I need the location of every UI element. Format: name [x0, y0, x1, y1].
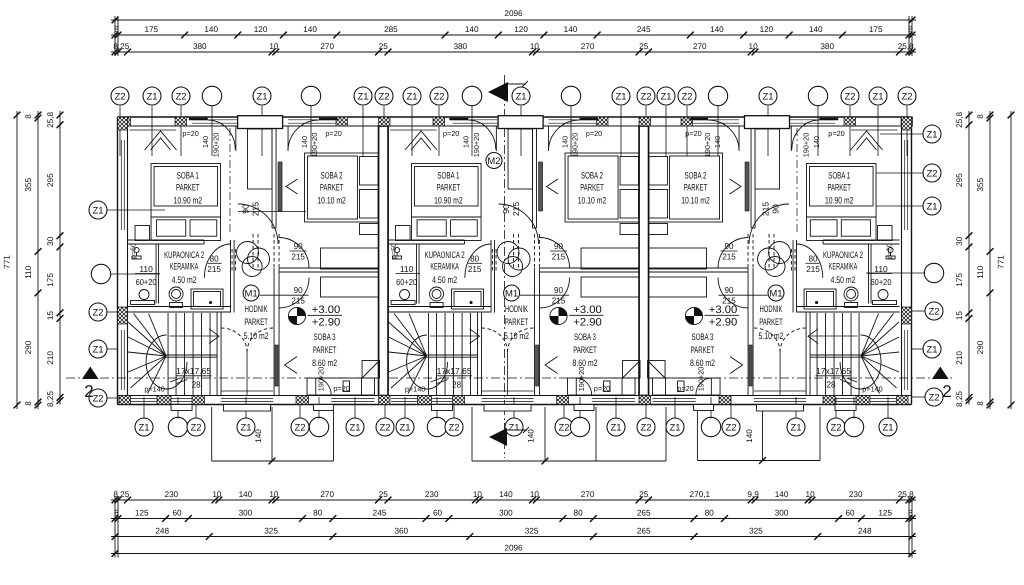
unit A: room label SOBA 1 [174, 169, 203, 205]
svg-text:2096: 2096 [504, 544, 523, 553]
section 2 marker right [932, 367, 952, 402]
svg-text:90: 90 [294, 241, 303, 251]
unit B: entrance door arc [576, 378, 592, 396]
svg-text:80: 80 [470, 254, 479, 264]
unit B: door size 90/215 lower [552, 285, 566, 306]
svg-text:190+20: 190+20 [703, 133, 712, 158]
svg-text:355: 355 [976, 178, 985, 192]
svg-text:190+20: 190+20 [571, 133, 580, 158]
unit A: room label SOBA 3 [312, 331, 337, 368]
unit C SOBA1 window in top wall [789, 119, 835, 121]
unit C: door size 90/215 lower [722, 285, 736, 306]
unit B SOBA1 window in top wall [453, 119, 499, 121]
svg-text:190+20: 190+20 [310, 133, 319, 158]
svg-text:270: 270 [581, 490, 595, 499]
svg-text:120: 120 [760, 25, 774, 34]
section 1 arrow top [488, 81, 528, 102]
dimension row top openings [111, 42, 916, 55]
unit C: stair mid landing rail [810, 354, 861, 356]
unit C: bathroom partition [870, 244, 872, 304]
unit A: door opening dashed jambs [231, 249, 233, 271]
svg-text:210: 210 [955, 351, 964, 365]
grid circle unlabeled at 101,274 [91, 264, 110, 283]
svg-text:Z2: Z2 [844, 91, 855, 102]
svg-text:25: 25 [639, 42, 649, 51]
svg-text:80: 80 [574, 509, 584, 518]
unit A: compartment shelf [131, 301, 155, 305]
unit A: SOBA1 nightstand [135, 226, 150, 241]
svg-text:120: 120 [514, 25, 528, 34]
unit A: bathroom partition [155, 244, 157, 304]
unit C: SOBA2 bed [649, 153, 723, 222]
svg-text:10.90 m2: 10.90 m2 [174, 194, 203, 205]
vertical dimension chain left rooms [46, 111, 63, 407]
svg-text:215: 215 [552, 252, 566, 262]
unit C: SOBA3 top wall [649, 267, 749, 269]
unit B: SOBA3 door arc [539, 278, 570, 309]
svg-text:Z1: Z1 [669, 422, 680, 433]
svg-text:80: 80 [210, 254, 219, 264]
unit B: corridor closet upper [581, 248, 639, 269]
svg-text:Z2: Z2 [114, 91, 125, 102]
unit C: SOBA3 closet [649, 277, 707, 297]
svg-text:140: 140 [710, 25, 724, 34]
unit C terrace window in bottom wall [653, 397, 696, 399]
svg-text:PARKET: PARKET [320, 182, 344, 193]
svg-text:190+20: 190+20 [802, 133, 811, 158]
unit B hodnik french door in bottom wall [482, 397, 534, 399]
grid circle unlabeled at 437,427 [427, 417, 446, 436]
unit B: door opening dashed jambs [492, 249, 494, 271]
svg-text:90: 90 [554, 241, 563, 251]
unit C chimney block [745, 116, 790, 129]
svg-text:90: 90 [725, 285, 734, 295]
unit B: closet in SOBA1 [508, 129, 533, 189]
entrance recess dimension chain right [697, 407, 820, 464]
svg-text:Z2: Z2 [190, 422, 201, 433]
hatched column top wall [119, 117, 131, 126]
hatched column bottom wall [192, 396, 205, 405]
svg-text:Z1: Z1 [508, 422, 519, 433]
unit C: hodnik step line [754, 390, 806, 392]
svg-text:5.10 m2: 5.10 m2 [504, 330, 529, 341]
window right wall lower [904, 330, 906, 390]
svg-text:90: 90 [554, 285, 563, 295]
grid circle Z1 at 262,96 [253, 87, 271, 105]
svg-text:270: 270 [320, 490, 334, 499]
grid circle Z2 at 687,96 [678, 87, 696, 105]
unit C: compartment shelf [873, 301, 897, 305]
grid circle Z2 at 384,96 [375, 87, 393, 105]
svg-text:Z2: Z2 [640, 91, 651, 102]
svg-text:110: 110 [139, 264, 153, 274]
outer wall left [117, 117, 119, 405]
unit A stair window in bottom wall [131, 397, 158, 399]
svg-text:8,25: 8,25 [46, 391, 55, 407]
svg-text:90: 90 [241, 204, 251, 214]
svg-text:300: 300 [499, 509, 513, 518]
svg-text:175: 175 [869, 25, 883, 34]
svg-text:4.50 m2: 4.50 m2 [172, 274, 197, 285]
svg-text:8.60 m2: 8.60 m2 [690, 357, 715, 368]
unit C: SOBA2 entry door leaf [690, 118, 709, 121]
unit C: wardrobe bar in SOBA2 [745, 162, 749, 211]
grid circle unlabeled at 854,427 [844, 417, 863, 436]
unit C: wall hodnik/SOBA3 [752, 268, 754, 396]
svg-text:290: 290 [24, 340, 33, 354]
unit C: french door threshold [757, 405, 804, 412]
unit A: room label KUPAONICA 2 [164, 249, 204, 285]
svg-text:Z2: Z2 [379, 422, 390, 433]
svg-text:190+20: 190+20 [577, 367, 586, 392]
unit B: washbasin [452, 289, 484, 309]
unit C: door size 90/215 upper [722, 241, 736, 262]
svg-text:90: 90 [771, 204, 781, 214]
grid circle Z1 at 405,427 [396, 418, 414, 436]
outer wall bottom [118, 404, 912, 406]
svg-text:Z2: Z2 [92, 307, 103, 318]
svg-text:270: 270 [320, 42, 334, 51]
hatched corner top-right [902, 117, 912, 130]
unit A: level marker +3.00/+2.90 [288, 304, 342, 329]
svg-text:HODNIK: HODNIK [760, 303, 783, 314]
svg-text:295: 295 [46, 173, 55, 187]
outer wall right [911, 117, 913, 405]
svg-text:KERAMIKA: KERAMIKA [170, 261, 199, 272]
svg-text:10.90 m2: 10.90 m2 [434, 194, 463, 205]
svg-text:10.10 m2: 10.10 m2 [317, 194, 346, 205]
svg-text:Z2: Z2 [681, 91, 692, 102]
grid circle Z1 at 616,427 [607, 418, 625, 436]
svg-text:380: 380 [193, 42, 207, 51]
unit B: SOBA1 entry door leaf [449, 118, 468, 121]
grid circle Z1 at 932,134 [923, 125, 941, 143]
unit A: entrance door arc [316, 378, 332, 396]
unit C: corridor closet upper [649, 248, 707, 269]
entrance recess dimension chain middle [472, 407, 666, 464]
unit B: bathroom door arc [465, 244, 491, 278]
svg-text:p=20: p=20 [443, 129, 459, 138]
svg-text:771: 771 [997, 255, 1006, 269]
unit A: SOBA3 bed [307, 378, 375, 395]
unit B: french door threshold [484, 405, 531, 412]
svg-text:25,8: 25,8 [955, 111, 964, 127]
unit C: sink [878, 290, 888, 300]
hatched column top wall [379, 117, 391, 126]
unit C: SOBA3 side table [678, 381, 685, 392]
svg-text:80: 80 [705, 509, 715, 518]
grid circle Z1 at 98,349 [89, 340, 107, 358]
svg-text:25: 25 [379, 42, 389, 51]
unit B: wall between SOBA1 and SOBA2 [532, 129, 534, 228]
svg-text:60: 60 [845, 509, 855, 518]
unit C: door opening dashed jambs [794, 249, 796, 271]
unit A: bathroom walls [128, 239, 205, 241]
svg-text:SOBA 2: SOBA 2 [685, 169, 707, 180]
unit B: sink [400, 290, 410, 300]
unit B: level marker +3.00/+2.90 [550, 304, 604, 329]
grid circle Z2 at 907,96 [898, 87, 916, 105]
svg-text:265: 265 [637, 509, 651, 518]
svg-text:140: 140 [239, 490, 253, 499]
unit A: wall between SOBA1 and SOBA2 [271, 129, 273, 228]
unit B: hodnik double door dashed arcs [482, 328, 508, 352]
svg-text:60: 60 [433, 509, 443, 518]
svg-text:17x17.65: 17x17.65 [176, 366, 211, 376]
svg-text:8: 8 [976, 401, 985, 406]
grid circle unlabeled at 178,427 [168, 417, 187, 436]
unit B stair window in bottom wall [391, 397, 418, 399]
unit A stair door in bottom wall [171, 397, 192, 399]
svg-text:90: 90 [501, 204, 511, 214]
unit A: chevron at SOBA2 bed foot [286, 179, 298, 194]
svg-text:10.90 m2: 10.90 m2 [825, 194, 854, 205]
unit C hodnik french door in bottom wall [754, 397, 806, 399]
unit A: stair door threshold [171, 405, 192, 411]
svg-text:5.10 m2: 5.10 m2 [244, 330, 269, 341]
unit B: stair mid landing rail [427, 354, 478, 356]
svg-text:SOBA 1: SOBA 1 [828, 169, 850, 180]
svg-text:10.10 m2: 10.10 m2 [681, 194, 710, 205]
grid line M unit A dash-dot [229, 128, 231, 233]
grid circle Z1 at 888,427 [879, 418, 897, 436]
unit B: french door centre stile [507, 352, 509, 396]
svg-text:90: 90 [294, 285, 303, 295]
grid circle unlabeled at 718,96 [708, 86, 727, 105]
unit B: SOBA1 hall door arc [499, 204, 539, 244]
grid circle Z1 at 246,427 [237, 418, 255, 436]
svg-text:190+20: 190+20 [472, 133, 481, 158]
unit A: french door threshold [224, 405, 271, 412]
unit C: SOBA3 closet with diagonal [648, 361, 666, 379]
svg-text:175: 175 [144, 25, 158, 34]
unit B: door size 90/215 upper [552, 241, 566, 262]
svg-text:p=140: p=140 [405, 385, 426, 394]
svg-text:KUPAONICA 2: KUPAONICA 2 [823, 249, 863, 260]
unit B chimney block [498, 116, 543, 129]
unit B: wall hodnik/SOBA3 [534, 268, 536, 396]
svg-text:230: 230 [849, 490, 863, 499]
grid circle M1 at 251,293 [243, 285, 259, 301]
grid circle Z1 at 768,96 [759, 87, 777, 105]
hatched column top wall [844, 117, 856, 126]
unit C: bathroom door size 80/215 [806, 254, 820, 275]
unit C: room label SOBA 2 [681, 169, 710, 205]
unit C: stair risers [817, 313, 859, 396]
unit A terrace window in bottom wall [331, 397, 374, 399]
svg-text:PARKET: PARKET [176, 182, 200, 193]
svg-text:Z1: Z1 [92, 344, 103, 355]
svg-text:110: 110 [24, 265, 33, 278]
grid circle Z2 at 98,398 [89, 389, 107, 407]
svg-text:190+20: 190+20 [317, 367, 326, 392]
right total 771 [997, 111, 1015, 409]
unit C: SOBA3 chevron [730, 357, 743, 374]
dimension row top axis spacing [111, 25, 916, 38]
unit C: SOBA1 nightstand [878, 226, 893, 241]
unit A sill line [130, 129, 177, 131]
unit C: hodnik double door dashed arcs [780, 328, 806, 352]
svg-text:Z2: Z2 [928, 306, 939, 317]
hatched column top wall [681, 117, 693, 126]
svg-text:25: 25 [379, 490, 389, 499]
unit C: room label SOBA 3 [690, 331, 715, 368]
unit B sill line [390, 129, 437, 131]
svg-text:p=50: p=50 [391, 243, 398, 259]
grid circle Z2 at 385,427 [376, 418, 394, 436]
grid circle Z2 at 850,96 [841, 87, 859, 105]
grid circle Z1 at 932,349 [923, 340, 941, 358]
section line 2-2 horizontal dash-dot [66, 377, 952, 379]
svg-text:215: 215 [722, 252, 736, 262]
svg-text:270: 270 [581, 42, 595, 51]
svg-text:SOBA 3: SOBA 3 [314, 331, 336, 342]
svg-text:140: 140 [775, 490, 789, 499]
unit A: corridor door arc [279, 238, 310, 269]
svg-text:10: 10 [212, 490, 222, 499]
svg-text:+3.00: +3.00 [312, 304, 341, 316]
unit B: plumbing stack circles [497, 242, 519, 264]
grid circle Z1 at 412,96 [403, 87, 421, 105]
left total 771 [3, 111, 21, 409]
svg-text:Z1: Z1 [349, 422, 360, 433]
dimension row bottom axis [111, 509, 916, 522]
hatched column top wall [597, 117, 609, 126]
grid circle Z1 at 621,96 [612, 87, 630, 105]
grid circle Z1 at 666,96 [657, 87, 675, 105]
hatched column bottom wall [157, 396, 171, 405]
unit A: SOBA3 chevron [285, 357, 298, 374]
svg-text:210: 210 [46, 351, 55, 365]
svg-text:175: 175 [46, 273, 55, 287]
top total dimension 2096 [111, 9, 916, 23]
svg-text:p=20: p=20 [828, 129, 844, 138]
unit B: room label SOBA 2 [578, 169, 607, 205]
grid circle Z2 at 646,427 [637, 418, 655, 436]
unit A: SOBA3 top wall [279, 267, 379, 269]
svg-text:380: 380 [453, 42, 467, 51]
svg-text:Z1: Z1 [406, 91, 417, 102]
unit C: SOBA2 bench [649, 224, 668, 235]
hatched column bottom wall [453, 396, 465, 405]
unit B: toilet [430, 287, 444, 301]
unit A: room label HODNIK [244, 303, 269, 341]
unit A: corner washstand [134, 247, 139, 252]
svg-text:Z1: Z1 [926, 129, 937, 140]
svg-text:285: 285 [384, 25, 398, 34]
svg-text:380: 380 [820, 42, 834, 51]
svg-text:245: 245 [637, 25, 651, 34]
unit A: toilet [169, 287, 183, 301]
unit B: SOBA3 side table [604, 381, 611, 392]
unit B: stair walking line and arrow [430, 335, 478, 337]
unit A: sink [139, 290, 149, 300]
window left wall lower [120, 330, 122, 390]
svg-text:Z1: Z1 [882, 422, 893, 433]
unit C: stair label 17x17.65 [816, 366, 851, 390]
hatched column bottom wall [119, 396, 131, 405]
svg-text:PARKET: PARKET [691, 344, 715, 355]
grid circle M1 at 512,293 [504, 285, 520, 301]
svg-text:+2.90: +2.90 [312, 317, 341, 329]
unit A: hodnik step line [221, 390, 273, 392]
svg-text:p=20: p=20 [685, 129, 701, 138]
svg-text:p=140: p=140 [144, 385, 165, 394]
svg-text:215: 215 [761, 202, 771, 217]
unit A: SOBA3 side table [343, 381, 350, 392]
unit C SOBA2 window/door in top wall [691, 119, 739, 121]
svg-text:PARKET: PARKET [759, 316, 783, 327]
party wall A/B [379, 126, 389, 396]
grid circle M1 at 776,293 [768, 285, 784, 301]
unit B: door pocket bar [536, 345, 539, 386]
svg-text:4.50 m2: 4.50 m2 [831, 274, 856, 285]
unit B: bathroom door size 80/215 [468, 254, 482, 275]
svg-text:360: 360 [394, 527, 408, 536]
svg-text:140: 140 [300, 136, 309, 148]
svg-text:SOBA 2: SOBA 2 [321, 169, 343, 180]
grid circle Z1 at 521,96 [512, 87, 530, 105]
unit A SOBA2 window/door in top wall [288, 119, 336, 121]
grid circle Z2 at 439,96 [430, 87, 448, 105]
svg-text:60+20: 60+20 [396, 277, 417, 287]
svg-text:M2: M2 [487, 156, 500, 167]
hatched column bottom wall [379, 396, 391, 405]
svg-text:140: 140 [561, 136, 570, 148]
svg-text:17x17.65: 17x17.65 [437, 366, 472, 376]
svg-text:140: 140 [809, 25, 823, 34]
unit B SOBA2 window/door in top wall [549, 119, 597, 121]
svg-text:8: 8 [24, 401, 33, 406]
svg-text:140: 140 [462, 136, 471, 148]
svg-text:8.60 m2: 8.60 m2 [312, 357, 337, 368]
svg-text:Z2: Z2 [378, 91, 389, 102]
unit C stair door in bottom wall [835, 397, 856, 399]
svg-text:8: 8 [976, 114, 985, 119]
svg-text:M1: M1 [769, 288, 782, 299]
unit B: hodnik step line [482, 390, 534, 392]
unit C: washbasin [804, 289, 836, 309]
unit B: chevron at SOBA2 bed foot [547, 179, 559, 194]
grid circle unlabeled at 711,427 [701, 417, 720, 436]
unit A: door size 90/215 upper [291, 241, 305, 262]
unit B: stair walking line arc [407, 335, 448, 389]
svg-text:140: 140 [254, 429, 263, 443]
svg-text:215: 215 [806, 264, 820, 274]
unit A: fitting size 110/60+20 [136, 264, 157, 287]
unit A: SOBA3 closet [321, 277, 379, 297]
svg-text:125: 125 [135, 509, 149, 518]
svg-text:Z2: Z2 [558, 422, 569, 433]
unit B: room label KUPAONICA 2 [425, 249, 465, 285]
grid circle Z1 at 363,96 [354, 87, 372, 105]
unit B: stair break marks [431, 378, 442, 382]
unit A: corridor closet upper [321, 248, 379, 269]
unit C: bathroom walls [823, 239, 900, 241]
svg-text:Z1: Z1 [615, 91, 626, 102]
svg-text:Z2: Z2 [294, 422, 305, 433]
svg-text:17x17.65: 17x17.65 [816, 366, 851, 376]
svg-text:215: 215 [511, 202, 521, 217]
svg-text:270: 270 [693, 42, 707, 51]
grid line M unit C dash-dot [796, 128, 798, 233]
grid circle Z1 at 98,210 [89, 201, 107, 219]
unit B: SOBA1 bed [412, 164, 482, 241]
unit B: corridor door arc [539, 238, 570, 269]
svg-text:30: 30 [955, 236, 964, 246]
unit C: stair winder fan [861, 314, 899, 394]
svg-text:8,25: 8,25 [113, 42, 129, 51]
